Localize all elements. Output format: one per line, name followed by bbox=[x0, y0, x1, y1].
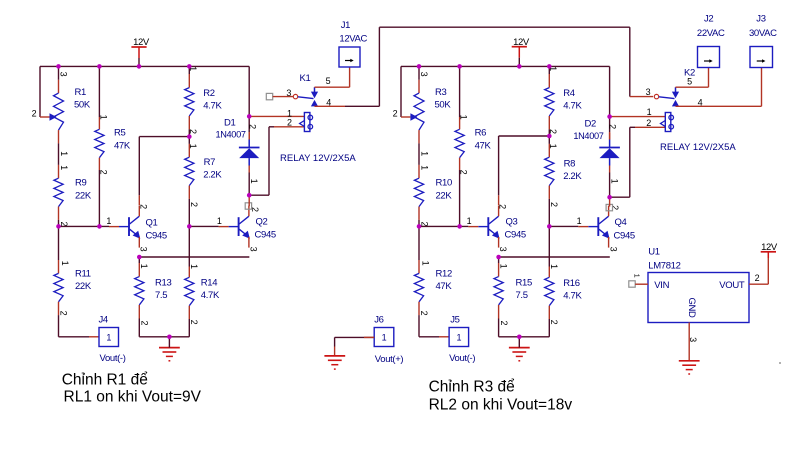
svg-text:J4: J4 bbox=[99, 314, 108, 325]
svg-text:LM7812: LM7812 bbox=[648, 260, 680, 271]
svg-text:1: 1 bbox=[139, 264, 149, 269]
svg-text:5: 5 bbox=[687, 77, 692, 87]
svg-text:2: 2 bbox=[189, 320, 199, 325]
svg-text:R14: R14 bbox=[201, 277, 217, 288]
svg-text:1: 1 bbox=[609, 179, 619, 184]
svg-text:2: 2 bbox=[646, 118, 651, 128]
svg-text:3: 3 bbox=[139, 247, 149, 252]
svg-text:2: 2 bbox=[498, 204, 508, 209]
svg-text:R1: R1 bbox=[75, 87, 87, 98]
svg-text:1: 1 bbox=[420, 261, 430, 266]
svg-text:1: 1 bbox=[467, 216, 472, 226]
svg-text:2: 2 bbox=[548, 129, 558, 134]
svg-text:R8: R8 bbox=[564, 158, 576, 169]
svg-text:2: 2 bbox=[189, 202, 199, 207]
svg-text:D2: D2 bbox=[585, 119, 597, 130]
svg-text:VOUT: VOUT bbox=[719, 280, 745, 291]
svg-text:1: 1 bbox=[217, 216, 222, 226]
svg-text:1: 1 bbox=[382, 332, 387, 342]
svg-text:1: 1 bbox=[188, 144, 198, 149]
svg-text:2.2K: 2.2K bbox=[563, 171, 582, 182]
svg-text:Q2: Q2 bbox=[256, 216, 268, 227]
svg-text:4.7K: 4.7K bbox=[563, 290, 582, 301]
svg-text:22VAC: 22VAC bbox=[697, 28, 725, 39]
svg-text:1: 1 bbox=[549, 264, 559, 269]
svg-text:3: 3 bbox=[249, 247, 259, 252]
svg-text:1: 1 bbox=[548, 144, 558, 149]
svg-text:Vout(+): Vout(+) bbox=[375, 354, 404, 365]
svg-text:D1: D1 bbox=[224, 117, 236, 128]
svg-text:1: 1 bbox=[106, 332, 111, 342]
svg-text:1: 1 bbox=[249, 179, 259, 184]
svg-text:1: 1 bbox=[419, 151, 429, 156]
svg-text:1N4007: 1N4007 bbox=[573, 131, 603, 141]
svg-text:2: 2 bbox=[247, 124, 257, 129]
svg-text:R6: R6 bbox=[475, 128, 487, 139]
svg-text:2: 2 bbox=[287, 118, 292, 128]
svg-text:Vout(-): Vout(-) bbox=[449, 353, 475, 364]
svg-text:1: 1 bbox=[189, 264, 199, 269]
svg-text:5: 5 bbox=[326, 76, 331, 86]
svg-text:22K: 22K bbox=[75, 281, 92, 292]
svg-text:C945: C945 bbox=[255, 230, 276, 241]
svg-text:4.7K: 4.7K bbox=[203, 100, 222, 111]
svg-text:1: 1 bbox=[647, 107, 652, 117]
svg-text:R10: R10 bbox=[436, 178, 452, 189]
svg-text:1N4007: 1N4007 bbox=[216, 130, 246, 140]
svg-text:7.5: 7.5 bbox=[155, 290, 167, 301]
svg-text:2: 2 bbox=[459, 170, 469, 175]
svg-text:R5: R5 bbox=[114, 128, 126, 139]
svg-text:RELAY 12V/2X5A: RELAY 12V/2X5A bbox=[660, 142, 736, 153]
svg-text:2: 2 bbox=[608, 124, 618, 129]
svg-text:47K: 47K bbox=[436, 281, 453, 292]
svg-text:RELAY 12V/2X5A: RELAY 12V/2X5A bbox=[280, 153, 356, 164]
svg-text:50K: 50K bbox=[74, 100, 91, 111]
svg-text:2: 2 bbox=[393, 109, 398, 119]
svg-text:R11: R11 bbox=[75, 268, 91, 279]
svg-text:47K: 47K bbox=[475, 140, 492, 151]
svg-text:Q1: Q1 bbox=[146, 217, 158, 228]
svg-text:Q4: Q4 bbox=[615, 217, 627, 228]
svg-text:RL1 on khi Vout=9V: RL1 on khi Vout=9V bbox=[64, 389, 202, 406]
svg-text:R7: R7 bbox=[204, 157, 216, 168]
svg-text:R3: R3 bbox=[435, 87, 447, 98]
svg-text:U1: U1 bbox=[648, 246, 660, 257]
svg-text:3: 3 bbox=[59, 72, 69, 77]
svg-text:2: 2 bbox=[755, 273, 760, 283]
svg-text:2: 2 bbox=[419, 311, 429, 316]
svg-text:2.2K: 2.2K bbox=[203, 169, 222, 180]
svg-text:2: 2 bbox=[610, 205, 620, 210]
svg-text:1: 1 bbox=[498, 264, 508, 269]
svg-text:2: 2 bbox=[32, 109, 37, 119]
svg-text:RL2 on khi Vout=18v: RL2 on khi Vout=18v bbox=[429, 396, 573, 413]
svg-text:R12: R12 bbox=[436, 268, 452, 279]
svg-text:2: 2 bbox=[98, 170, 108, 175]
svg-text:1: 1 bbox=[577, 216, 582, 226]
svg-text:J5: J5 bbox=[450, 314, 459, 325]
svg-text:3: 3 bbox=[646, 87, 651, 97]
svg-text:C945: C945 bbox=[614, 230, 635, 241]
svg-text:R2: R2 bbox=[203, 88, 215, 99]
svg-text:1: 1 bbox=[98, 115, 108, 120]
svg-text:2: 2 bbox=[138, 204, 148, 209]
svg-text:3: 3 bbox=[688, 337, 698, 342]
svg-text:Vout(-): Vout(-) bbox=[100, 353, 126, 364]
svg-text:R4: R4 bbox=[563, 88, 575, 99]
svg-text:Chỉnh R3 để: Chỉnh R3 để bbox=[429, 379, 515, 396]
svg-text:1: 1 bbox=[459, 115, 469, 120]
svg-text:J2: J2 bbox=[704, 13, 713, 24]
svg-text:1: 1 bbox=[106, 216, 111, 226]
svg-text:J6: J6 bbox=[374, 314, 383, 325]
svg-text:C945: C945 bbox=[146, 230, 167, 241]
svg-text:50K: 50K bbox=[435, 100, 452, 111]
svg-text:4.7K: 4.7K bbox=[201, 290, 220, 301]
svg-text:3: 3 bbox=[498, 247, 508, 252]
svg-text:J3: J3 bbox=[756, 13, 765, 24]
svg-text:22K: 22K bbox=[75, 190, 92, 201]
svg-text:Q3: Q3 bbox=[506, 216, 518, 227]
svg-text:2: 2 bbox=[549, 202, 559, 207]
svg-text:Chỉnh R1 để: Chỉnh R1 để bbox=[62, 371, 148, 388]
svg-text:1: 1 bbox=[457, 332, 462, 342]
svg-text:4.7K: 4.7K bbox=[563, 100, 582, 111]
svg-text:12VAC: 12VAC bbox=[339, 34, 367, 45]
svg-text:J1: J1 bbox=[341, 20, 350, 31]
svg-text:1: 1 bbox=[419, 165, 429, 170]
svg-text:2: 2 bbox=[499, 320, 509, 325]
svg-text:2: 2 bbox=[140, 320, 150, 325]
svg-text:1: 1 bbox=[60, 261, 70, 266]
svg-text:R15: R15 bbox=[516, 277, 532, 288]
svg-text:3: 3 bbox=[608, 247, 618, 252]
svg-text:2: 2 bbox=[188, 129, 198, 134]
svg-text:1: 1 bbox=[59, 165, 69, 170]
svg-text:GND: GND bbox=[686, 297, 697, 318]
svg-text:C945: C945 bbox=[505, 230, 526, 241]
svg-text:47K: 47K bbox=[114, 140, 131, 151]
svg-text:1: 1 bbox=[632, 274, 641, 278]
svg-text:3: 3 bbox=[419, 72, 429, 77]
svg-text:K1: K1 bbox=[300, 73, 311, 84]
svg-text:R13: R13 bbox=[155, 277, 171, 288]
svg-text:VIN: VIN bbox=[654, 280, 669, 291]
svg-text:2: 2 bbox=[58, 311, 68, 316]
svg-text:1: 1 bbox=[59, 151, 69, 156]
svg-text:2: 2 bbox=[549, 320, 559, 325]
svg-text:22K: 22K bbox=[436, 190, 453, 201]
svg-text:7.5: 7.5 bbox=[516, 290, 528, 301]
svg-text:30VAC: 30VAC bbox=[749, 28, 777, 39]
svg-text:R16: R16 bbox=[563, 278, 579, 289]
svg-text:R9: R9 bbox=[75, 178, 87, 189]
